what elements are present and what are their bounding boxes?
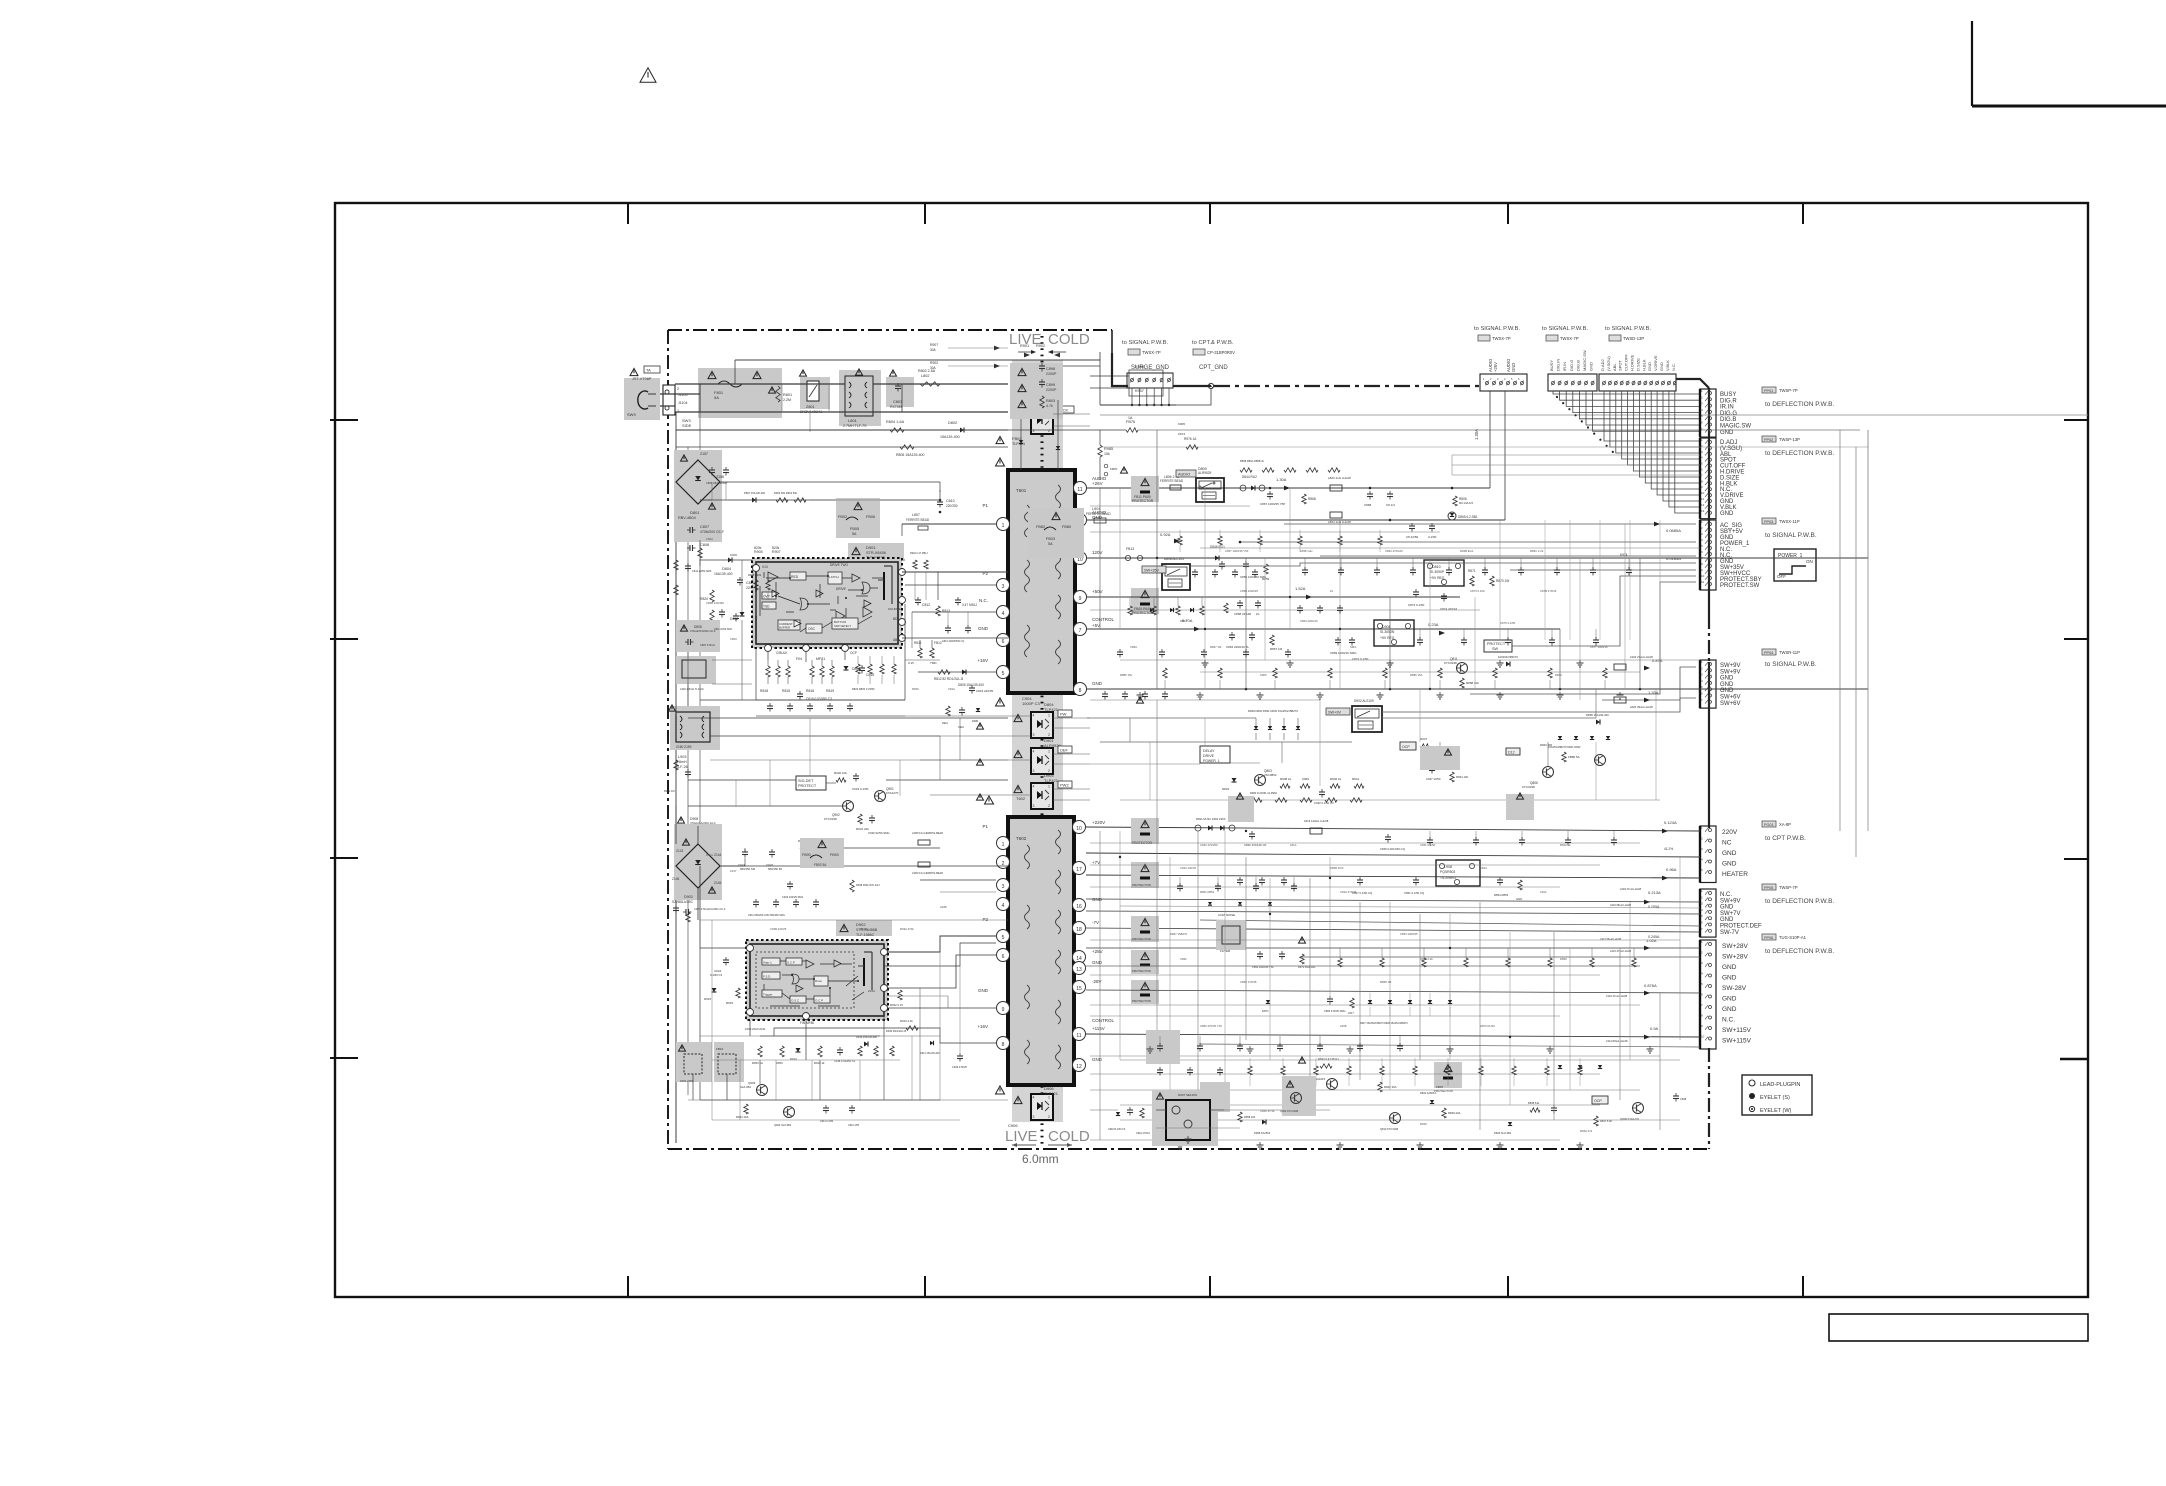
svg-text:4: 4 <box>1033 785 1035 789</box>
horizontal wires below IC801 <box>712 659 752 661</box>
gray patch pair bottom left of center <box>1282 1076 1316 1116</box>
svg-text:GND: GND <box>1722 861 1737 868</box>
DELAY DRIVE POWER_1 box <box>1200 746 1230 763</box>
C848 zener parts <box>1673 1095 1679 1097</box>
caps bottom left row <box>823 1107 829 1109</box>
svg-text:R870 1W: R870 1W <box>1496 579 1509 583</box>
svg-text:GND: GND <box>978 626 989 631</box>
left area zigzag y585 <box>754 580 758 590</box>
svg-text:T602: T602 <box>1016 836 1027 841</box>
svg-text:10: 10 <box>1076 826 1082 832</box>
heavy wire 13P to right column <box>1676 379 1709 388</box>
svg-text:to SIGNAL P.W.B.: to SIGNAL P.W.B. <box>1122 340 1168 346</box>
OCP box bottom <box>1592 1096 1608 1104</box>
audio connector drop wires <box>1489 391 1491 488</box>
wires opto outputs right <box>1053 717 1090 719</box>
svg-text:K905: K905 <box>1178 422 1185 426</box>
transistor Q804 KTA1270 right <box>1435 755 1446 766</box>
svg-text:TLP421: TLP421 <box>1044 1091 1059 1096</box>
stub texture on 50V bus <box>1129 597 1131 606</box>
cap row bottom y1070 <box>1157 1069 1163 1071</box>
degauss branch wires <box>734 360 736 384</box>
wires through L903 <box>675 706 677 716</box>
svg-text:SI-3090P: SI-3090P <box>1430 570 1445 574</box>
svg-text:C85B 2200/35: C85B 2200/35 <box>1240 589 1258 593</box>
svg-text:C860 470/160: C860 470/160 <box>1385 549 1403 553</box>
svg-text:C873 0.15A: C873 0.15A <box>1470 589 1485 593</box>
arrow 1.30A on audio bus <box>1284 486 1290 491</box>
IC901 MOSFET <box>863 958 865 986</box>
border tick right 4 <box>2060 1058 2088 1061</box>
svg-text:C858 22/160: C858 22/160 <box>1234 612 1252 616</box>
resistor row y666 extras <box>856 664 860 674</box>
svg-text:R954 10A: R954 10A <box>736 1115 749 1119</box>
svg-text:PQSR503: PQSR503 <box>1440 870 1455 874</box>
svg-text:5: 5 <box>1002 671 1005 677</box>
svg-text:0.9A: 0.9A <box>1650 1026 1659 1031</box>
components left of IC901 <box>723 959 729 961</box>
left column parts y900-930 <box>673 907 679 909</box>
svg-text:F.S.D: F.S.D <box>763 975 771 979</box>
svg-text:120V: 120V <box>1092 550 1103 555</box>
caps around heater reg <box>1413 879 1419 881</box>
svg-text:L917 56uH LHL08: L917 56uH LHL08 <box>1600 937 1622 941</box>
border tick left 4 <box>330 1057 358 1059</box>
svg-text:DELAY: DELAY <box>1203 749 1215 753</box>
svg-text:SMG: SMG <box>1350 645 1356 649</box>
wire bend from 120V bus to 220V area <box>1867 558 1869 831</box>
svg-text:to SIGNAL P.W.B.: to SIGNAL P.W.B. <box>1765 661 1817 668</box>
R810 R811 sense resistors <box>918 648 922 658</box>
svg-text:D86B RU3: D86B RU3 <box>1330 866 1344 870</box>
svg-text:D810: D810 <box>1432 565 1441 569</box>
svg-text:DRIVE TWO: DRIVE TWO <box>830 563 849 567</box>
IC801 small internal dots <box>789 577 791 579</box>
svg-text:DIG.R: DIG.R <box>1720 398 1737 404</box>
svg-text:TWSR-11P: TWSR-11P <box>1779 650 1800 655</box>
svg-text:R888 10k: R888 10k <box>1466 681 1479 685</box>
IC801 MOSFET <box>883 572 885 600</box>
svg-text:R908 R909: R908 R909 <box>748 573 762 577</box>
svg-text:C86A: C86A <box>1130 645 1137 649</box>
svg-text:SPOT: SPOT <box>1618 360 1623 371</box>
svg-text:R843 0.47 PN1J: R843 0.47 PN1J <box>1318 1057 1339 1061</box>
regulator D810 SI-3090P <box>1424 560 1464 586</box>
svg-text:3: 3 <box>1002 884 1005 890</box>
svg-text:D915: D915 <box>704 997 712 1001</box>
long thin rail under connector row <box>1100 414 2088 416</box>
svg-text:D827 15A254/15B270 D828 15A25: D827 15A254/15B270 D828 15A254/15B270 <box>1360 1022 1408 1025</box>
connector PP05 header <box>1762 884 1776 890</box>
C923 cap <box>787 883 793 885</box>
Q808 transistor bottom <box>1633 1103 1644 1114</box>
svg-text:T602: T602 <box>1016 796 1026 801</box>
svg-text:D804: D804 <box>722 567 731 571</box>
svg-text:MF81: MF81 <box>816 657 825 661</box>
svg-text:BUSY: BUSY <box>1549 360 1554 371</box>
R931 R930 parts under Q902 <box>858 814 862 824</box>
mid secondary vertical wires <box>1099 488 1101 629</box>
svg-text:6: 6 <box>1002 639 1005 645</box>
IC801 internal wiring mesh <box>766 577 790 579</box>
FB03 TLF401 label <box>996 436 1004 443</box>
svg-text:FILTER: FILTER <box>1220 949 1231 953</box>
svg-text:470uH/1A/2RG 2A-F: 470uH/1A/2RG 2A-F <box>690 821 716 825</box>
svg-text:4: 4 <box>1033 750 1035 754</box>
wires degauss <box>675 1082 677 1143</box>
svg-text:CP-31BP0R0V: CP-31BP0R0V <box>1207 350 1235 355</box>
svg-text:4: 4 <box>1002 903 1005 909</box>
drawing border frame <box>335 203 2088 1297</box>
K958 jumper group right of isolation <box>1129 370 1163 396</box>
svg-text:D908 KA2503: D908 KA2503 <box>1254 1131 1271 1135</box>
svg-text:FB10: FB10 <box>716 1047 724 1051</box>
svg-text:470M/200 CE-F: 470M/200 CE-F <box>700 530 724 534</box>
svg-text:R985: R985 <box>1104 447 1113 451</box>
cold area boundary dash-dot right vertical middle <box>1708 615 1710 662</box>
svg-text:L804 1uH LHL08: L804 1uH LHL08 <box>1328 520 1351 524</box>
svg-text:C857 1000/35 Y5F: C857 1000/35 Y5F <box>1225 549 1249 553</box>
svg-text:Z104 Z103 Z211: Z104 Z103 Z211 <box>745 1027 766 1031</box>
svg-text:220V: 220V <box>1722 829 1738 836</box>
svg-text:PROTECT.DEF: PROTECT.DEF <box>1720 924 1762 930</box>
gnd stubs mid zone <box>1204 660 1206 663</box>
svg-text:8: 8 <box>1002 1042 1005 1048</box>
svg-text:C842 470/12K CK: C842 470/12K CK <box>1244 843 1267 847</box>
POWER_1 wire to PP03 <box>1240 541 1696 543</box>
svg-text:GND: GND <box>1720 905 1734 911</box>
wires middle strip live side <box>688 779 796 781</box>
svg-text:FB90: FB90 <box>802 853 811 857</box>
wire fusible R805 row <box>676 446 1008 448</box>
svg-text:SW+9V: SW+9V <box>1720 669 1741 675</box>
cap grid zone 560-660 <box>1192 571 1198 573</box>
wire +16V to T602 pin8 <box>774 1028 996 1043</box>
svg-text:P2: P2 <box>982 917 988 922</box>
relay SW+9V D902 ALS109 <box>1352 706 1382 732</box>
svg-text:TMD: TMD <box>930 661 937 665</box>
bridge rectifier D801 gray patch <box>674 450 722 542</box>
svg-text:C840 470/250: C840 470/250 <box>1200 843 1218 847</box>
svg-text:SW+9V: SW+9V <box>1720 663 1741 669</box>
svg-text:AB2: AB2 <box>893 638 899 642</box>
border tick bottom 3 <box>1209 1276 1211 1297</box>
R985 resistor vertical <box>1098 445 1102 457</box>
svg-text:LEAD-PLUGPIN: LEAD-PLUGPIN <box>1760 1082 1800 1088</box>
wires below IC901 <box>699 948 701 1100</box>
IC801 small internal triangles <box>772 590 779 597</box>
wire from relay to PP04 SW+9V <box>1382 667 1696 712</box>
photocoupler relay D901 ALR9529 (DEF) <box>1031 748 1053 774</box>
svg-text:R938 1k: R938 1k <box>1280 777 1292 781</box>
svg-text:R848 51k: R848 51k <box>1528 1101 1540 1105</box>
connector PP01 header <box>1762 387 1776 393</box>
svg-text:SLZ-3B1: SLZ-3B1 <box>740 1085 751 1089</box>
SW+HVCC wire to PP03 <box>1510 569 1696 571</box>
IC901 corner pin stubs <box>749 1020 751 1036</box>
svg-text:6.0mm: 6.0mm <box>1022 1152 1059 1166</box>
svg-text:1.02A: 1.02A <box>1646 938 1657 943</box>
wire bus SW-7V <box>1086 928 1700 932</box>
diode row below PP04 wires <box>1558 736 1562 740</box>
FB protector patches column 2 <box>1131 862 1159 888</box>
svg-text:ZL: ZL <box>1256 612 1260 616</box>
PROTECT.SW wire to PP03 <box>1470 582 1696 694</box>
C926 cap under T602 <box>957 1055 963 1057</box>
T602 pin 2 <box>997 856 1010 869</box>
C856 C861 caps 120V <box>1243 563 1249 565</box>
fuse F801 gray patch <box>698 368 782 418</box>
svg-text:O.S.C: O.S.C <box>791 999 800 1003</box>
middle strip extra wires <box>688 717 710 719</box>
parts between IC801 and T601 <box>913 560 917 569</box>
svg-text:Z144: Z144 <box>714 853 721 857</box>
svg-text:Z201 Z206: Z201 Z206 <box>680 1079 694 1083</box>
cap row bottom y870 <box>1237 879 1243 881</box>
wire bus SW+28V <box>1086 947 1700 949</box>
border tick top 1 <box>627 203 629 224</box>
wire from isolation caps to SURGE <box>1063 365 1100 367</box>
connector PP08 audio body <box>1480 374 1527 391</box>
svg-text:680/250 SM: 680/250 SM <box>740 867 756 871</box>
T602 pin 17 <box>1073 862 1086 875</box>
legend box <box>1742 1075 1812 1115</box>
svg-text:PP02: PP02 <box>1764 438 1773 442</box>
svg-text:SW+6V: SW+6V <box>1720 701 1741 707</box>
stub texture on 28V bus <box>1339 948 1341 958</box>
transistor Q805 2SA4215 115V <box>1327 1079 1338 1090</box>
SW+35V wire to PP03 <box>1190 563 1696 566</box>
svg-text:1.30A: 1.30A <box>1474 429 1479 440</box>
svg-text:L914 R0uH LHL08: L914 R0uH LHL08 <box>1606 1039 1628 1043</box>
svg-text:R819: R819 <box>826 689 834 693</box>
T602 pin 3 <box>997 879 1010 892</box>
svg-text:11: 11 <box>1076 1033 1081 1039</box>
arrow 0.124A 220V <box>1662 829 1668 834</box>
svg-text:11: 11 <box>1077 487 1082 493</box>
svg-text:L904 27uH LHL08: L904 27uH LHL08 <box>1630 655 1653 659</box>
resistor string below bridge1 <box>698 548 702 558</box>
svg-text:KTA1270: KTA1270 <box>886 791 899 795</box>
svg-text:D838 15A139-400: D838 15A139-400 <box>1586 713 1609 717</box>
svg-text:SW+28V: SW+28V <box>1722 943 1748 950</box>
stub texture on 115V bus <box>1159 1036 1161 1046</box>
IC801 STR-X6456 block <box>752 558 902 648</box>
svg-text:C877 1000/16: C877 1000/16 <box>1590 645 1608 649</box>
svg-text:D825: D825 <box>1420 1122 1427 1126</box>
cap C901 bottom bridge <box>685 909 687 915</box>
svg-text:TLP421: TLP421 <box>1044 778 1059 783</box>
svg-text:R863: R863 <box>1180 619 1187 623</box>
svg-text:S.C.P: S.C.P <box>787 961 795 965</box>
svg-text:R801: R801 <box>783 393 792 397</box>
border tick top 3 <box>1209 203 1211 224</box>
arrow on 120V bus <box>1174 539 1180 544</box>
components below IC901 <box>758 1046 762 1057</box>
border tick bottom 4 <box>1507 1276 1509 1297</box>
SBY5V wire to PP03 <box>1284 523 1696 525</box>
border tick top 5 <box>1802 203 1804 224</box>
svg-text:DIG.B: DIG.B <box>1720 417 1736 423</box>
svg-text:C810: C810 <box>946 499 955 503</box>
svg-text:SW+6V: SW+6V <box>1720 695 1741 701</box>
svg-text:Z143: Z143 <box>676 849 683 853</box>
svg-text:D871 RGP10G: D871 RGP10G <box>1298 965 1315 969</box>
svg-text:SW9: SW9 <box>627 412 636 417</box>
IC901 gates <box>792 974 799 984</box>
svg-text:C867 1000/35 Y5P: C867 1000/35 Y5P <box>1260 502 1285 506</box>
stub texture on heater bus <box>1179 877 1181 886</box>
svg-text:R916 1k: R916 1k <box>814 1061 825 1065</box>
R976 resistor on rail <box>1186 445 1198 449</box>
horizontal wires lower-left <box>700 919 1008 921</box>
svg-text:SI-3050N: SI-3050N <box>1380 630 1395 634</box>
svg-text:L916 68uH LHL08: L916 68uH LHL08 <box>1610 903 1632 907</box>
svg-text:PW2: PW2 <box>1060 783 1069 788</box>
svg-text:3: 3 <box>1033 1115 1035 1119</box>
border tick right 1 <box>2064 419 2088 421</box>
wire bus SW+9V deflection <box>1086 899 1700 902</box>
live area boundary dash-dot top <box>668 329 1112 331</box>
svg-text:Z157: Z157 <box>700 452 708 456</box>
svg-text:Z146: Z146 <box>672 877 679 881</box>
svg-text:9: 9 <box>1002 1007 1005 1013</box>
C807 C808 filter caps <box>689 527 691 533</box>
svg-text:to CPT.& P.W.B.: to CPT.& P.W.B. <box>1192 340 1234 346</box>
svg-text:4: 4 <box>1002 611 1005 617</box>
svg-text:L803 1uH LHL08: L803 1uH LHL08 <box>1328 476 1351 480</box>
wire bus CONTROL +5V <box>1087 628 1560 630</box>
border tick bottom 1 <box>627 1276 629 1297</box>
R865 R868 divider <box>1302 494 1306 504</box>
svg-text:N.C.: N.C. <box>1720 892 1732 898</box>
svg-text:PROTECT: PROTECT <box>798 784 817 788</box>
svg-text:GND: GND <box>1647 362 1652 371</box>
T601 pin 5 <box>997 666 1010 679</box>
svg-text:COLD: COLD <box>1048 331 1090 348</box>
warning triangle (page note) <box>640 68 656 82</box>
svg-text:Trigger: Trigger <box>763 993 772 997</box>
transistor Q901 KTA1270 <box>875 791 886 802</box>
svg-text:1A: 1A <box>1128 416 1133 420</box>
wires IC2 to T602 pins <box>884 943 996 966</box>
transistor Q803 2SC3852 <box>1255 775 1266 786</box>
svg-text:+26V: +26V <box>1092 481 1103 486</box>
diode D806 below IC801 <box>844 666 849 670</box>
svg-text:GND: GND <box>1511 363 1516 372</box>
mid cluster x940-1000 y700-760 <box>946 706 950 716</box>
C811 cap <box>737 579 743 581</box>
GND bus junction dots <box>1245 688 1248 691</box>
POWER_1 waveform box <box>1774 549 1816 581</box>
svg-text:R932 0.15: R932 0.15 <box>890 1003 903 1007</box>
svg-text:FB02: FB02 <box>838 515 847 519</box>
svg-text:V.BLK: V.BLK <box>1665 360 1670 371</box>
border tick top 4 <box>1507 203 1509 224</box>
svg-text:R858 1M: R858 1M <box>1380 980 1392 984</box>
svg-text:GND: GND <box>1722 1006 1737 1013</box>
svg-text:O.C.P: O.C.P <box>815 999 823 1003</box>
svg-text:DIG.G: DIG.G <box>1720 411 1737 417</box>
L806 ferrite bead <box>1170 485 1181 490</box>
svg-text:C816 0.033/50 C3: C816 0.033/50 C3 <box>806 697 832 701</box>
svg-text:D869: D869 <box>1560 957 1567 961</box>
svg-text:Step-1: Step-1 <box>763 961 772 965</box>
svg-text:C874 470/16: C874 470/16 <box>1440 607 1458 611</box>
svg-text:D870 RU3C: D870 RU3C <box>1480 1024 1495 1028</box>
vertical wires lower-left <box>711 920 713 1120</box>
svg-text:3: 3 <box>1033 733 1035 737</box>
caps under bridge2 row <box>753 901 759 903</box>
svg-text:0.92A: 0.92A <box>1160 532 1171 537</box>
T601 pin 1 <box>997 518 1010 531</box>
svg-text:L915 47uH LHL08: L915 47uH LHL08 <box>1610 949 1632 953</box>
svg-text:FIN MF80: FIN MF80 <box>800 1021 814 1025</box>
R933 R932 sense pair <box>898 990 902 1000</box>
FB13 bead on 120V bus <box>1125 555 1130 560</box>
svg-text:GND: GND <box>1516 897 1522 901</box>
svg-text:N.C.: N.C. <box>1671 363 1676 371</box>
svg-text:TS-3VREG: TS-3VREG <box>1440 876 1456 880</box>
svg-text:+7V: +7V <box>1092 860 1100 865</box>
svg-text:CONTROL: CONTROL <box>1092 1018 1114 1023</box>
L803 L804 chokes on audio bus <box>1330 485 1342 491</box>
diode D823 zener <box>1232 778 1237 782</box>
connector PP01 TWSP-7P body <box>1700 389 1716 437</box>
svg-text:EYELET (S): EYELET (S) <box>1760 1095 1790 1101</box>
extra transistors cold middle <box>1235 803 1246 814</box>
svg-text:D821 RU3C Z264 Z263: D821 RU3C Z264 Z263 <box>1196 817 1226 821</box>
cluster zone D bottom gnd stubs <box>1179 1142 1181 1145</box>
wire bridge1 output to snubber <box>720 481 940 483</box>
svg-text:GND: GND <box>1720 430 1734 436</box>
svg-text:OVP: OVP <box>763 595 770 599</box>
vertical rail left C <box>699 412 701 844</box>
svg-text:L801: L801 <box>848 418 858 423</box>
svg-text:C868: C868 <box>1364 503 1372 507</box>
svg-text:GND: GND <box>978 988 989 993</box>
svg-text:C80B 100/450: C80B 100/450 <box>706 601 724 605</box>
svg-text:C937 10/50: C937 10/50 <box>1426 777 1441 781</box>
svg-text:GND: GND <box>1722 850 1737 857</box>
stub texture bottom strip resistors <box>1248 1066 1252 1075</box>
svg-text:470uH/470/2RG CK-F: 470uH/470/2RG CK-F <box>690 629 716 633</box>
revision box bottom right <box>1829 1314 2088 1341</box>
svg-text:R913 2.2k: R913 2.2k <box>900 1019 913 1023</box>
svg-text:FB92 5A: FB92 5A <box>814 863 827 867</box>
connector PP06 header <box>1762 934 1776 940</box>
svg-text:C/BULK: C/BULK <box>776 651 788 655</box>
svg-text:STR-X6456: STR-X6456 <box>866 551 886 555</box>
svg-text:(V.SGU): (V.SGU) <box>1606 356 1611 371</box>
warning triangle above T601 <box>996 458 1005 466</box>
zener D902 KA7910 left of IC801 <box>740 612 745 616</box>
connector PP05 TWSP-7P body <box>1700 889 1716 937</box>
svg-text:R805 15A139-400: R805 15A139-400 <box>896 453 924 457</box>
svg-text:TWSP-7P: TWSP-7P <box>1779 885 1798 890</box>
svg-text:D914 15A139-400: D914 15A139-400 <box>920 1052 940 1055</box>
R843 0.47 resistor <box>1320 1064 1332 1068</box>
svg-text:IR.IN: IR.IN <box>1720 405 1734 411</box>
T602 pin 9 <box>997 1002 1010 1015</box>
svg-text:R907: R907 <box>930 343 938 347</box>
R958 bottom <box>744 1104 748 1114</box>
svg-text:R868 R86A R86B 1k: R868 R86A R86B 1k <box>1240 459 1265 463</box>
svg-text:16: 16 <box>1076 904 1082 910</box>
D910 KA2500 bottom <box>1262 1120 1266 1125</box>
svg-text:+115V: +115V <box>1092 1026 1105 1031</box>
T601 pin 8 <box>1074 683 1087 696</box>
